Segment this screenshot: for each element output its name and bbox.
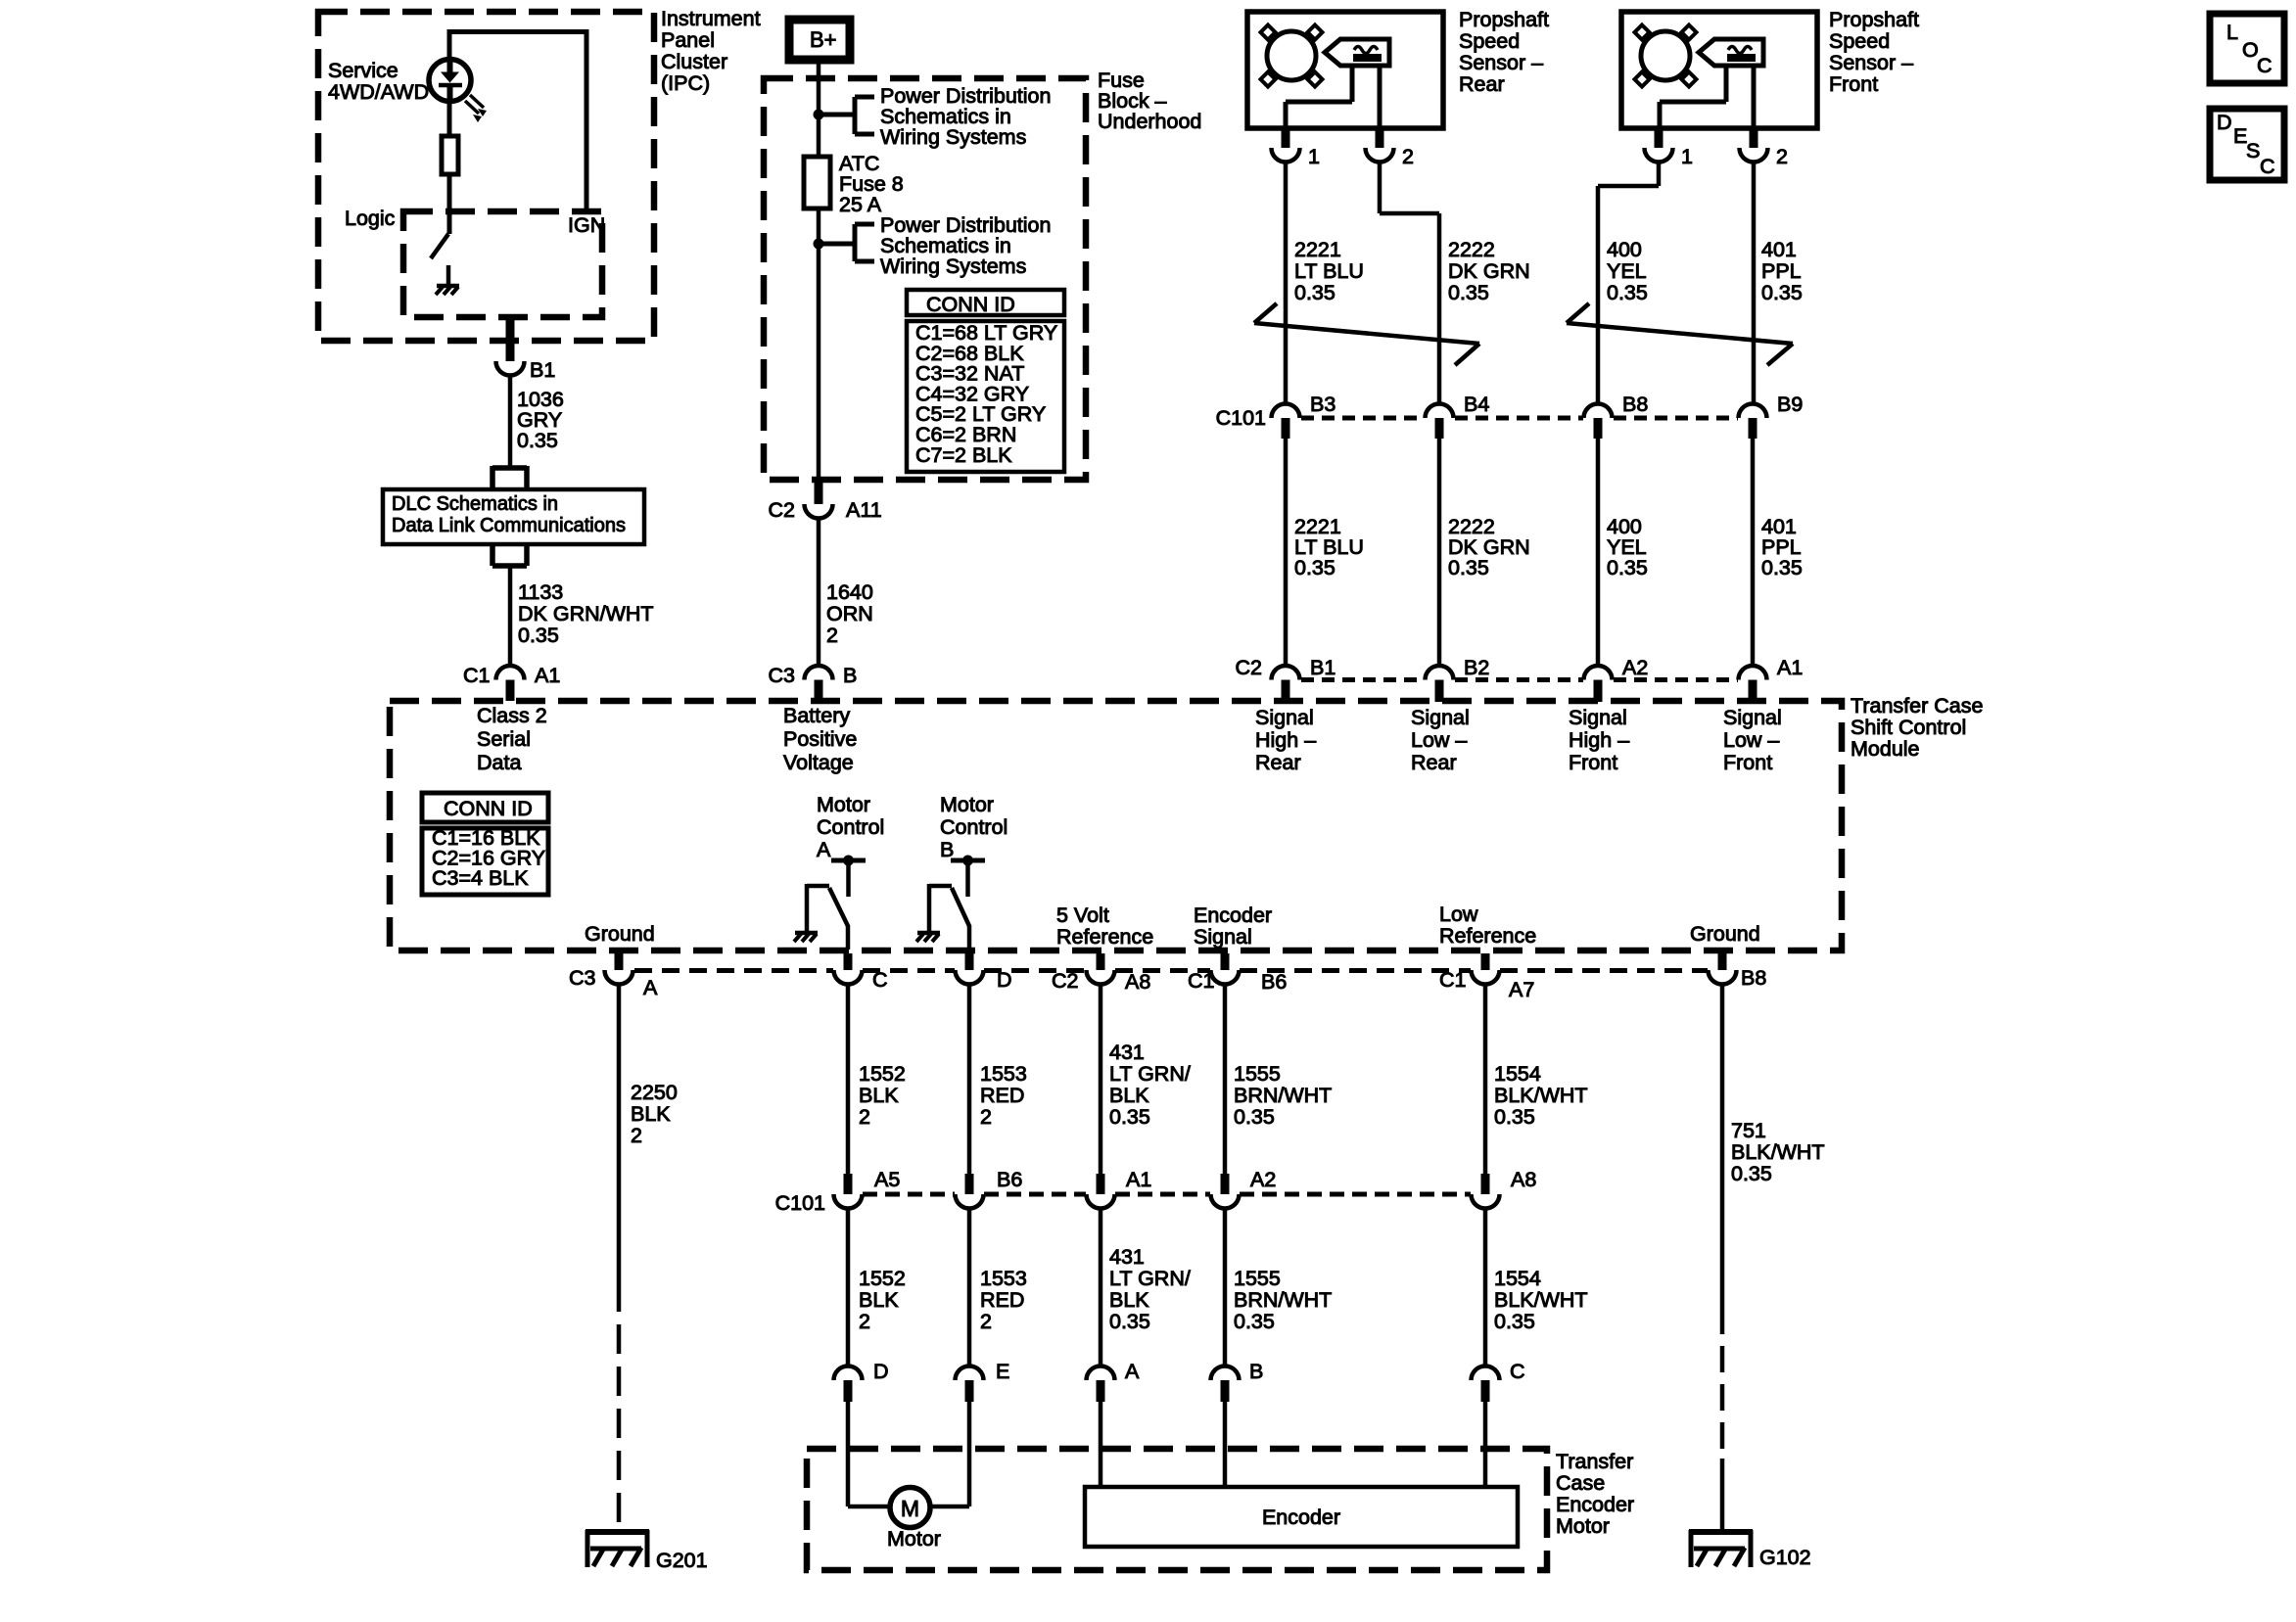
wire 1555 lower xyxy=(1223,1209,1228,1367)
svg-text:C: C xyxy=(872,968,888,992)
wire ground left upper xyxy=(617,985,622,1283)
junction dot 2 xyxy=(814,239,824,250)
DLC bracket top xyxy=(492,466,527,490)
svg-text:Case: Case xyxy=(1556,1471,1605,1495)
svg-text:2: 2 xyxy=(859,1105,870,1129)
wire 1640 segment xyxy=(817,517,821,665)
svg-text:1552: 1552 xyxy=(859,1267,906,1290)
label A11 xyxy=(846,498,882,522)
svg-text:E: E xyxy=(996,1360,1009,1383)
wire 2221 lower xyxy=(1284,439,1289,665)
label wire 2250 BLK 2 xyxy=(631,1081,678,1147)
svg-text:C: C xyxy=(2257,54,2273,77)
svg-text:L: L xyxy=(2226,21,2238,44)
label Signal Low Front xyxy=(1723,706,1782,774)
svg-text:BRN/WHT: BRN/WHT xyxy=(1234,1084,1332,1107)
connector A row3 xyxy=(1087,1360,1141,1402)
svg-text:Low –: Low – xyxy=(1411,728,1467,752)
svg-text:0.35: 0.35 xyxy=(1109,1310,1150,1333)
svg-text:0.35: 0.35 xyxy=(518,624,559,647)
svg-text:BRN/WHT: BRN/WHT xyxy=(1234,1288,1332,1312)
wire encoder A xyxy=(1099,1402,1103,1487)
svg-text:B+: B+ xyxy=(810,27,837,52)
svg-text:2: 2 xyxy=(980,1105,992,1129)
svg-text:Module: Module xyxy=(1851,737,1920,761)
wire 1036 segment xyxy=(508,376,513,469)
wire 2222 lower xyxy=(1437,439,1442,665)
svg-text:Underhood: Underhood xyxy=(1098,110,1201,133)
label B6 bottom xyxy=(1261,970,1287,994)
label wire 751 BLK/WHT 0.35 xyxy=(1731,1119,1825,1185)
svg-text:25 A: 25 A xyxy=(839,193,882,216)
svg-text:1: 1 xyxy=(1308,145,1320,168)
svg-text:Front: Front xyxy=(1723,751,1772,774)
svg-text:0.35: 0.35 xyxy=(1294,281,1335,304)
connector B8 bottom xyxy=(1709,953,1767,990)
wire 1554 upper xyxy=(1483,985,1488,1175)
svg-text:BLK: BLK xyxy=(1109,1288,1149,1312)
label C3 xyxy=(769,664,796,687)
svg-text:BLK: BLK xyxy=(631,1102,671,1126)
label wire 1553 lower xyxy=(980,1267,1027,1333)
svg-text:0.35: 0.35 xyxy=(1494,1105,1535,1129)
svg-text:2: 2 xyxy=(1776,145,1788,168)
wire encoder C xyxy=(1483,1402,1488,1487)
svg-text:B2: B2 xyxy=(1464,656,1489,679)
fuse block underhood dashed box xyxy=(764,78,1086,480)
label 5 Volt Reference xyxy=(1056,904,1153,949)
wire 2222 upper xyxy=(1380,162,1439,404)
svg-text:B: B xyxy=(1249,1360,1263,1383)
svg-text:B: B xyxy=(940,838,954,861)
label Logic xyxy=(345,207,396,230)
svg-text:Reference: Reference xyxy=(1439,924,1536,948)
DLC Schematics box xyxy=(383,489,644,544)
svg-text:A2: A2 xyxy=(1622,656,1648,679)
C101 row1 dashed link xyxy=(1301,416,1738,421)
svg-text:A2: A2 xyxy=(1250,1168,1276,1191)
svg-text:Ground: Ground xyxy=(585,922,655,946)
motor control B ground xyxy=(916,933,940,942)
svg-text:BLK/WHT: BLK/WHT xyxy=(1731,1140,1825,1164)
svg-text:B6: B6 xyxy=(1261,970,1287,994)
label transfer case encoder motor xyxy=(1556,1450,1634,1538)
svg-text:B1: B1 xyxy=(530,358,555,382)
svg-text:C7=2 BLK: C7=2 BLK xyxy=(915,443,1012,467)
svg-text:C2: C2 xyxy=(769,498,795,522)
svg-text:400: 400 xyxy=(1607,238,1642,261)
label C2 xyxy=(769,498,795,522)
label wire 1036 GRY 0.35 xyxy=(517,388,564,452)
svg-text:2: 2 xyxy=(631,1124,642,1147)
svg-text:YEL: YEL xyxy=(1607,259,1647,283)
label A8 bottom xyxy=(1125,970,1150,994)
connector C motor xyxy=(834,953,888,992)
connector C1/B6 xyxy=(1211,953,1240,985)
label transfer case shift control module xyxy=(1851,694,1983,761)
svg-text:A1: A1 xyxy=(1777,656,1803,679)
ground G201 xyxy=(586,1530,708,1572)
svg-text:BLK: BLK xyxy=(859,1288,899,1312)
wire 1554 lower xyxy=(1483,1209,1488,1367)
B+ battery feed box xyxy=(789,20,850,60)
label wire 2221 upper xyxy=(1294,238,1364,304)
svg-text:Service: Service xyxy=(328,59,398,82)
svg-text:LT GRN/: LT GRN/ xyxy=(1109,1267,1191,1290)
svg-text:Logic: Logic xyxy=(345,207,396,230)
fuse ATC Fuse 8 25A xyxy=(804,115,830,244)
connector C2/A11 xyxy=(805,480,833,519)
connector A2 row2 xyxy=(1211,1168,1277,1209)
connector front pin1 xyxy=(1645,128,1693,168)
lamp arrows xyxy=(465,95,487,122)
connector B8 row1 xyxy=(1584,393,1649,439)
label wire 1640 ORN 2 xyxy=(826,580,873,647)
connector A5 xyxy=(834,1168,901,1209)
svg-text:1640: 1640 xyxy=(826,580,873,604)
wire 1133 segment xyxy=(508,566,513,665)
svg-text:C: C xyxy=(1510,1360,1525,1383)
ground in IPC xyxy=(436,265,459,295)
svg-text:Encoder: Encoder xyxy=(1194,904,1272,927)
svg-text:1555: 1555 xyxy=(1234,1267,1281,1290)
connector C row3 xyxy=(1472,1360,1525,1402)
svg-text:0.35: 0.35 xyxy=(1234,1105,1275,1129)
C101 row2 dotted link xyxy=(863,1192,1471,1197)
svg-text:RED: RED xyxy=(980,1288,1024,1312)
label wire 400 upper xyxy=(1607,238,1648,304)
svg-text:Sensor –: Sensor – xyxy=(1829,51,1913,74)
svg-text:S: S xyxy=(2246,139,2260,162)
svg-text:Data: Data xyxy=(477,751,521,774)
wire 1553 upper xyxy=(967,985,972,1175)
svg-text:431: 431 xyxy=(1109,1041,1145,1064)
label Class 2 Serial Data xyxy=(477,704,547,774)
connector B3 xyxy=(1272,393,1336,439)
svg-text:1553: 1553 xyxy=(980,1267,1027,1290)
label DLC Schematics xyxy=(392,493,626,536)
label C2 module xyxy=(1236,656,1262,679)
motor control A switch xyxy=(807,884,848,950)
wire encoder B xyxy=(1223,1402,1228,1487)
label wire 401 lower xyxy=(1761,515,1803,579)
label C101 row1 xyxy=(1216,406,1266,430)
svg-text:D: D xyxy=(997,968,1012,992)
svg-text:IGN: IGN xyxy=(568,213,605,237)
svg-text:A8: A8 xyxy=(1125,970,1150,994)
svg-text:Speed: Speed xyxy=(1459,29,1520,53)
svg-text:751: 751 xyxy=(1731,1119,1766,1142)
connector C3/B cup xyxy=(805,666,833,701)
label wire 2221 lower xyxy=(1294,515,1364,579)
svg-text:DK GRN/WHT: DK GRN/WHT xyxy=(518,602,654,626)
svg-text:401: 401 xyxy=(1761,238,1797,261)
motor control A ground xyxy=(794,933,818,942)
transfer case encoder motor box (dashed) xyxy=(807,1449,1547,1570)
connector E row3 xyxy=(956,1360,1010,1402)
svg-text:C3=4 BLK: C3=4 BLK xyxy=(432,866,529,890)
svg-text:G102: G102 xyxy=(1759,1546,1811,1569)
motor control B switch xyxy=(929,884,969,950)
svg-text:Rear: Rear xyxy=(1255,751,1301,774)
label wire 401 upper xyxy=(1761,238,1803,304)
svg-text:A1: A1 xyxy=(535,664,560,687)
svg-text:A1: A1 xyxy=(1126,1168,1151,1191)
label C1 xyxy=(463,664,490,687)
connector B4 xyxy=(1426,393,1490,439)
svg-text:D: D xyxy=(873,1360,889,1383)
label wire 1554 upper xyxy=(1494,1062,1588,1129)
IPC label xyxy=(661,7,761,95)
connector C2/B1 xyxy=(1272,666,1300,701)
wire B+ to fuse block xyxy=(817,64,821,115)
svg-text:C2: C2 xyxy=(1236,656,1262,679)
LOC box xyxy=(2210,14,2284,83)
resistor in IPC xyxy=(442,101,458,234)
svg-text:Battery: Battery xyxy=(783,704,850,727)
svg-text:BLK: BLK xyxy=(859,1084,899,1107)
svg-text:Class 2: Class 2 xyxy=(477,704,547,727)
connector D motor xyxy=(956,953,1012,992)
label Signal High Rear xyxy=(1255,706,1316,774)
svg-text:RED: RED xyxy=(980,1084,1024,1107)
svg-text:Positive: Positive xyxy=(783,727,857,751)
svg-text:B1: B1 xyxy=(1310,656,1335,679)
svg-text:0.35: 0.35 xyxy=(517,429,558,452)
indicator lamp Service 4WD/AWD xyxy=(429,57,471,102)
svg-text:A5: A5 xyxy=(874,1168,900,1191)
svg-text:Signal: Signal xyxy=(1723,706,1782,729)
ground G102 xyxy=(1689,1530,1811,1569)
svg-text:C1: C1 xyxy=(1439,968,1466,992)
svg-text:Motor: Motor xyxy=(1556,1514,1610,1538)
module top dashed link xyxy=(1301,677,1738,682)
wire 401 lower xyxy=(1751,439,1756,665)
svg-text:4WD/AWD: 4WD/AWD xyxy=(328,80,429,104)
CONN ID table 2 xyxy=(422,793,548,895)
connector C1/A1 cup xyxy=(496,666,525,701)
DLC bracket bottom xyxy=(492,543,527,566)
wire motor D xyxy=(848,1402,890,1506)
wire 431 upper xyxy=(1099,985,1103,1175)
svg-text:Data Link Communications: Data Link Communications xyxy=(392,515,626,536)
label wire 1553 upper xyxy=(980,1062,1027,1129)
svg-text:C1: C1 xyxy=(1188,969,1214,993)
connector B9 xyxy=(1739,393,1804,439)
label A1 xyxy=(535,664,560,687)
svg-text:1133: 1133 xyxy=(518,580,563,604)
svg-text:Transfer: Transfer xyxy=(1556,1450,1633,1473)
svg-text:2: 2 xyxy=(826,624,838,647)
connector A1 row2 xyxy=(1087,1168,1152,1209)
svg-text:B9: B9 xyxy=(1777,393,1803,416)
svg-text:C101: C101 xyxy=(775,1191,825,1215)
svg-text:2221: 2221 xyxy=(1294,238,1341,261)
connector rear pin2 xyxy=(1366,128,1414,168)
svg-text:Rear: Rear xyxy=(1459,72,1505,96)
module bottom dotted link xyxy=(634,968,1708,973)
svg-text:C2: C2 xyxy=(1052,969,1078,993)
svg-text:Signal: Signal xyxy=(1411,706,1470,729)
svg-text:Panel: Panel xyxy=(661,28,715,52)
connector front pin2 xyxy=(1740,128,1788,168)
svg-text:2: 2 xyxy=(859,1310,870,1333)
motor control A contact xyxy=(831,856,866,898)
connector A2 top xyxy=(1584,656,1649,702)
svg-text:A11: A11 xyxy=(846,498,882,522)
connector C2/A8 xyxy=(1087,953,1115,985)
svg-text:B4: B4 xyxy=(1464,393,1489,416)
svg-text:0.35: 0.35 xyxy=(1494,1310,1535,1333)
label Signal High Front xyxy=(1569,706,1629,774)
connector B2 xyxy=(1426,656,1490,702)
wire fuse to C2/A11 xyxy=(817,244,821,480)
connector D row3 xyxy=(834,1360,889,1402)
wire 431 lower xyxy=(1099,1209,1103,1367)
label Motor Control B xyxy=(940,793,1007,861)
svg-text:0.35: 0.35 xyxy=(1294,556,1335,579)
svg-text:D: D xyxy=(2217,111,2232,134)
label A7 bottom xyxy=(1509,978,1534,1001)
label wire 1133 DK GRN/WHT 0.35 xyxy=(518,580,654,647)
svg-text:B3: B3 xyxy=(1310,393,1335,416)
encoder box xyxy=(1085,1487,1518,1547)
label power distribution 1 xyxy=(880,84,1051,149)
svg-text:Instrument: Instrument xyxy=(661,7,761,30)
svg-text:5 Volt: 5 Volt xyxy=(1056,904,1109,927)
svg-text:Control: Control xyxy=(817,815,884,839)
label B xyxy=(843,664,857,687)
svg-text:A: A xyxy=(643,976,658,999)
svg-text:BLK/WHT: BLK/WHT xyxy=(1494,1288,1588,1312)
svg-text:Voltage: Voltage xyxy=(783,751,854,774)
svg-text:Control: Control xyxy=(940,815,1007,839)
svg-text:Serial: Serial xyxy=(477,727,531,751)
junction dot 1 xyxy=(814,110,824,120)
svg-text:A7: A7 xyxy=(1509,978,1534,1001)
svg-text:Ground: Ground xyxy=(1690,922,1760,946)
label wire 1555 upper xyxy=(1234,1062,1332,1129)
wire 1555 upper xyxy=(1223,985,1228,1175)
svg-text:(IPC): (IPC) xyxy=(661,71,710,95)
svg-text:High –: High – xyxy=(1255,728,1316,752)
svg-text:A: A xyxy=(1125,1360,1140,1383)
svg-text:C3: C3 xyxy=(769,664,796,687)
label Fuse Block - Underhood xyxy=(1098,69,1201,133)
svg-text:Wiring Systems: Wiring Systems xyxy=(880,125,1026,149)
label Motor xyxy=(887,1527,941,1551)
svg-text:PPL: PPL xyxy=(1761,259,1802,283)
label wire 1555 lower xyxy=(1234,1267,1332,1333)
label C1 bottom a7 xyxy=(1439,968,1466,992)
label Battery Positive Voltage xyxy=(783,704,857,774)
svg-text:Rear: Rear xyxy=(1411,751,1457,774)
svg-text:BLK/WHT: BLK/WHT xyxy=(1494,1084,1588,1107)
svg-text:CONN ID: CONN ID xyxy=(444,797,533,820)
connector rear pin1 xyxy=(1272,128,1320,168)
label wire 2222 lower xyxy=(1448,515,1530,579)
svg-text:0.35: 0.35 xyxy=(1109,1105,1150,1129)
off-page ref bracket 1 xyxy=(819,97,874,134)
svg-text:2: 2 xyxy=(980,1310,992,1333)
wire 751 right xyxy=(1720,985,1725,1533)
connector C1/A7 xyxy=(1472,953,1500,985)
svg-text:C1: C1 xyxy=(463,664,490,687)
svg-text:A: A xyxy=(817,838,831,861)
svg-text:1555: 1555 xyxy=(1234,1062,1281,1086)
svg-text:1552: 1552 xyxy=(859,1062,906,1086)
svg-text:0.35: 0.35 xyxy=(1448,281,1489,304)
label power distribution 2 xyxy=(880,213,1051,278)
DESC box xyxy=(2210,109,2284,180)
svg-text:Front: Front xyxy=(1569,751,1617,774)
svg-text:LT GRN/: LT GRN/ xyxy=(1109,1062,1191,1086)
svg-text:1554: 1554 xyxy=(1494,1267,1541,1290)
svg-text:0.35: 0.35 xyxy=(1448,556,1489,579)
connector A8 row2 xyxy=(1472,1168,1537,1209)
connector B row3 xyxy=(1211,1360,1264,1402)
svg-text:Encoder: Encoder xyxy=(1262,1506,1340,1529)
switch in IPC xyxy=(431,234,448,258)
svg-text:Cluster: Cluster xyxy=(661,50,727,73)
svg-text:Signal: Signal xyxy=(1255,706,1314,729)
svg-text:CONN ID: CONN ID xyxy=(926,293,1015,316)
svg-text:LT BLU: LT BLU xyxy=(1294,259,1364,283)
label wire 2222 upper xyxy=(1448,238,1530,304)
wire 401 upper xyxy=(1752,162,1757,404)
label wire 1552 lower xyxy=(859,1267,906,1333)
label IGN xyxy=(568,213,605,237)
inner Logic/IGN dashed box xyxy=(403,211,602,317)
label Ground left xyxy=(585,922,655,946)
off-page ref bracket 2 xyxy=(819,224,874,261)
label propshaft front xyxy=(1829,8,1919,96)
svg-text:Shift Control: Shift Control xyxy=(1851,716,1966,739)
motor control B contact xyxy=(951,856,985,898)
CONN ID table 1 xyxy=(907,290,1064,472)
svg-text:0.35: 0.35 xyxy=(1761,556,1803,579)
label Low Reference xyxy=(1439,903,1536,948)
svg-text:Signal: Signal xyxy=(1194,925,1252,949)
svg-text:Wiring Systems: Wiring Systems xyxy=(880,255,1026,278)
svg-text:2250: 2250 xyxy=(631,1081,678,1104)
label C101 row2 xyxy=(775,1191,825,1215)
label Motor Control A xyxy=(817,793,884,861)
svg-text:B: B xyxy=(843,664,857,687)
svg-text:Sensor –: Sensor – xyxy=(1459,51,1543,74)
propshaft speed sensor rear box xyxy=(1247,12,1443,128)
label wire 1552 upper xyxy=(859,1062,906,1129)
connector B6 row2 xyxy=(956,1168,1023,1209)
svg-text:Speed: Speed xyxy=(1829,29,1890,53)
wire 400 upper xyxy=(1598,162,1659,404)
svg-text:B6: B6 xyxy=(997,1168,1022,1191)
label wire 431 upper xyxy=(1109,1041,1191,1129)
svg-text:Reference: Reference xyxy=(1056,925,1153,949)
label ATC Fuse 8 25 A xyxy=(839,152,904,216)
label Signal Low Rear xyxy=(1411,706,1470,774)
svg-text:B8: B8 xyxy=(1622,393,1648,416)
svg-text:G201: G201 xyxy=(656,1549,708,1572)
svg-text:C3: C3 xyxy=(569,966,596,990)
wire motor E xyxy=(930,1402,969,1506)
label B1 module xyxy=(1310,656,1335,679)
label C2 bottom xyxy=(1052,969,1078,993)
svg-text:Motor: Motor xyxy=(940,793,994,816)
wire 1552 lower xyxy=(846,1209,851,1367)
svg-text:Motor: Motor xyxy=(817,793,870,816)
svg-text:DLC Schematics in: DLC Schematics in xyxy=(392,493,558,515)
